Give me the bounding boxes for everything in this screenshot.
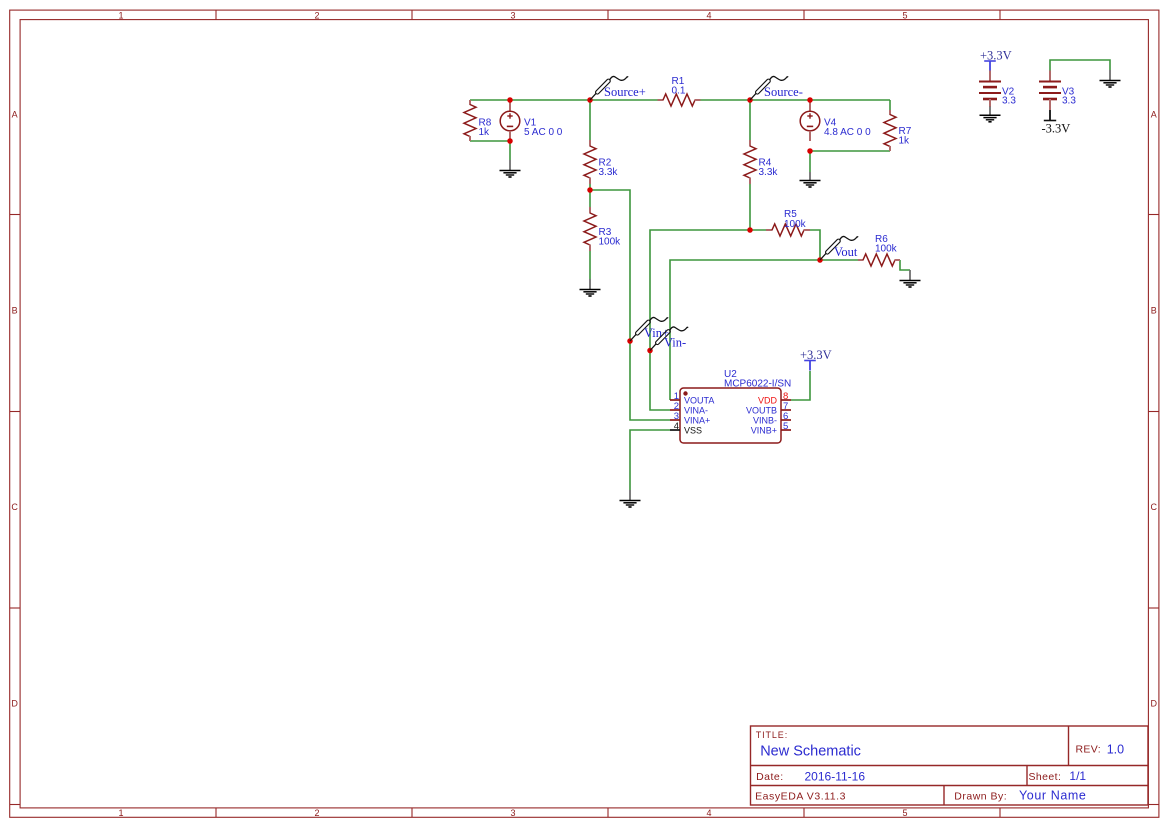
ground right of V3: [1100, 70, 1121, 87]
svg-text:A: A: [12, 109, 18, 119]
wire U2 VDD to +3.3V flag: [791, 371, 810, 400]
ground below V1: [500, 160, 521, 177]
battery V2 top pin stub: [989, 71, 991, 82]
svg-text:VINA-: VINA-: [684, 405, 708, 415]
battery V3 bottom pin stub: [1049, 99, 1051, 110]
junction Vin+ node: [627, 338, 633, 344]
svg-text:VOUTB: VOUTB: [746, 405, 777, 415]
svg-text:0.1: 0.1: [672, 86, 686, 97]
svg-text:1: 1: [118, 808, 123, 818]
op-amp U2 MCP6022-I/SN body: [680, 388, 781, 443]
resistor R3: [584, 207, 596, 251]
wire R2 bottom to node: [589, 184, 591, 190]
svg-text:VOUTA: VOUTA: [684, 395, 714, 405]
resistor R4: [744, 140, 756, 184]
label V4 value: [824, 117, 871, 138]
ground right of R6: [900, 270, 921, 287]
wire Vout node to U2 VOUTA: [670, 260, 820, 400]
junction Vin- node: [647, 348, 653, 354]
label R1 value: [672, 76, 686, 97]
svg-text:4: 4: [674, 421, 679, 432]
svg-text:TITLE:: TITLE:: [756, 730, 788, 740]
svg-text:4: 4: [706, 11, 711, 21]
wire R8 bottom to V1 bottom: [470, 140, 510, 142]
svg-text:Source+: Source+: [604, 85, 646, 99]
label R2 value: [599, 157, 619, 178]
svg-text:1k: 1k: [479, 127, 491, 138]
ground below U2 VSS: [620, 490, 641, 507]
battery V2: [979, 82, 1001, 100]
svg-text:1: 1: [118, 11, 123, 21]
ground below R3: [580, 279, 601, 296]
svg-text:A: A: [1151, 109, 1157, 119]
wire R2/R3 node to U2 VINA+ (via Vin+): [590, 190, 670, 420]
resistor R6: [858, 254, 900, 266]
net flag probe Source-: [750, 76, 788, 100]
voltage source V4: [800, 100, 820, 141]
svg-text:5: 5: [902, 808, 907, 818]
power flag +3.3V at U2 VDD: [800, 348, 832, 371]
svg-text:1.0: 1.0: [1107, 742, 1124, 756]
resistor R1: [658, 94, 701, 106]
svg-text:Your Name: Your Name: [1019, 789, 1086, 803]
svg-text:VINB-: VINB-: [753, 415, 777, 425]
svg-text:C: C: [1151, 502, 1158, 512]
resistor R8: [464, 100, 476, 141]
label V3 value: [1062, 86, 1076, 106]
svg-text:3.3: 3.3: [1062, 96, 1076, 107]
svg-text:5 AC 0 0: 5 AC 0 0: [524, 127, 563, 138]
wire node to R3 top: [589, 190, 591, 208]
svg-text:MCP6022-I/SN: MCP6022-I/SN: [724, 379, 791, 390]
svg-text:Date:: Date:: [756, 771, 784, 783]
svg-text:B: B: [1151, 305, 1157, 315]
battery V2 bottom pin stub: [989, 99, 991, 107]
svg-text:VSS: VSS: [684, 425, 702, 435]
wire Source- node down to R4: [749, 100, 751, 141]
label R7 value: [899, 126, 912, 146]
label R3 value: [599, 227, 622, 248]
resistor R5: [766, 224, 810, 236]
wire R4 node to U2 VINA- (via Vin-): [650, 230, 750, 410]
U2 pin 5 VINB+: [751, 421, 791, 435]
svg-text:4.8 AC 0 0: 4.8 AC 0 0: [824, 127, 871, 138]
svg-text:3: 3: [510, 808, 515, 818]
U2 pin 4 VSS: [670, 421, 702, 435]
label R8 value: [479, 117, 492, 138]
resistor R7: [884, 110, 896, 151]
svg-text:100k: 100k: [599, 237, 622, 248]
junction R2/R3 node: [587, 187, 593, 193]
svg-text:100k: 100k: [875, 244, 898, 255]
svg-text:Source-: Source-: [764, 85, 803, 99]
svg-text:2: 2: [314, 808, 319, 818]
wire top rail to R7: [889, 100, 891, 111]
svg-text:+3.3V: +3.3V: [800, 348, 832, 362]
wire V3 plus to ground: [1050, 60, 1110, 71]
net flag probe Source+: [590, 76, 628, 100]
svg-text:1/1: 1/1: [1069, 769, 1086, 783]
svg-text:REV:: REV:: [1076, 743, 1102, 755]
label R5 value: [784, 209, 807, 230]
junction V4 bottom: [807, 148, 813, 154]
U2 pin 2 VINA-: [670, 401, 708, 415]
junction V4 top: [807, 97, 813, 103]
svg-text:Drawn By:: Drawn By:: [954, 791, 1007, 803]
wire R4 bottom to node: [749, 184, 751, 230]
net flag probe Vin+: [630, 317, 668, 341]
junction V1 bottom: [507, 138, 513, 144]
svg-text:C: C: [11, 502, 18, 512]
svg-text:Sheet:: Sheet:: [1029, 771, 1062, 783]
svg-text:3: 3: [510, 11, 515, 21]
svg-text:D: D: [1151, 698, 1158, 708]
svg-text:VINA+: VINA+: [684, 415, 710, 425]
net flag probe Vin-: [650, 327, 688, 351]
wire R5 right to Vout node: [810, 230, 821, 260]
wire Vout node to R6: [820, 259, 859, 261]
battery V3: [1039, 82, 1061, 100]
voltage source V1: [500, 100, 520, 141]
U2 pin 1 VOUTA: [670, 391, 714, 405]
svg-text:3.3k: 3.3k: [759, 167, 779, 178]
junction V1 top: [507, 97, 513, 103]
svg-text:VDD: VDD: [758, 395, 778, 405]
wire U2 VSS to ground: [630, 430, 670, 490]
svg-text:3.3k: 3.3k: [599, 167, 619, 178]
resistor R2: [584, 140, 596, 184]
svg-text:1k: 1k: [899, 136, 911, 147]
label V2 value: [1002, 86, 1016, 106]
svg-text:5: 5: [783, 421, 788, 432]
U2 reference and part labels: [724, 369, 791, 390]
svg-text:3.3: 3.3: [1002, 96, 1016, 107]
ground below V4: [800, 172, 821, 187]
svg-text:2016-11-16: 2016-11-16: [805, 769, 866, 783]
wire V4 bottom to R7 bottom: [810, 150, 890, 152]
wire V1 minus to ground: [509, 141, 511, 160]
svg-text:B: B: [12, 305, 18, 315]
svg-text:New Schematic: New Schematic: [760, 743, 861, 759]
svg-text:VINB+: VINB+: [751, 425, 777, 435]
wire R6 right to ground: [900, 260, 910, 270]
U2 pin 6 VINB-: [753, 411, 791, 425]
junction Vout node: [817, 257, 823, 263]
svg-text:Vout: Vout: [834, 245, 858, 259]
svg-text:100k: 100k: [784, 219, 807, 230]
svg-text:+3.3V: +3.3V: [980, 48, 1012, 62]
junction R4/R5 node: [747, 227, 753, 233]
wire R4 node to R5: [750, 229, 767, 231]
label V1 value: [524, 117, 563, 138]
power flag +3.3V at V2: [980, 48, 1012, 71]
wire top rail right (Source- segment): [701, 99, 891, 101]
svg-text:-3.3V: -3.3V: [1042, 122, 1071, 136]
U2 pin 7 VOUTB: [746, 401, 791, 415]
power flag -3.3V below V3: [1042, 110, 1071, 136]
net flag probe Vout: [820, 236, 858, 260]
title block outline: [751, 726, 1149, 805]
label R4 value: [759, 157, 779, 178]
junction Source+ node: [587, 97, 593, 103]
svg-text:4: 4: [706, 808, 711, 818]
svg-text:2: 2: [314, 11, 319, 21]
ground below V2: [980, 107, 1001, 122]
U2 pin 8 VDD: [758, 391, 791, 405]
svg-text:D: D: [11, 698, 18, 708]
wire Source+ node down to R2: [589, 100, 591, 141]
wire V4 minus to ground: [809, 151, 811, 172]
U2 pin 3 VINA+: [670, 411, 710, 425]
svg-text:EasyEDA V3.11.3: EasyEDA V3.11.3: [755, 791, 846, 803]
junction Source- node: [747, 97, 753, 103]
wire R3 bottom to ground: [589, 251, 591, 280]
wire top rail left (Source+ segment): [470, 99, 658, 101]
svg-text:5: 5: [902, 11, 907, 21]
battery V3 top pin stub: [1049, 71, 1051, 82]
label R6 value: [875, 234, 898, 255]
svg-text:Vin-: Vin-: [664, 336, 686, 350]
